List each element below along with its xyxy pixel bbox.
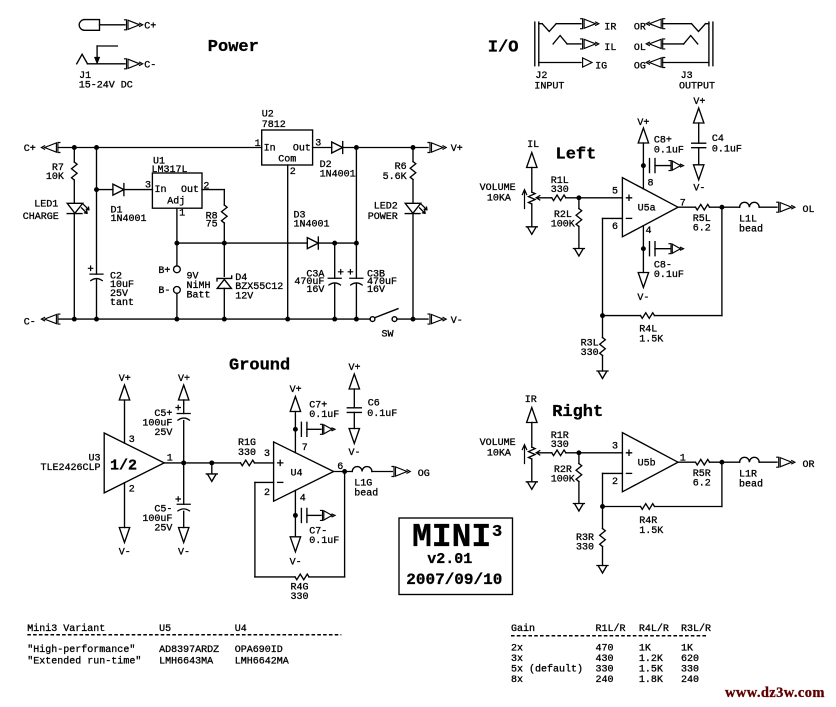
label U3 — [88, 454, 100, 465]
ground arrow (pot R) — [526, 482, 537, 490]
battery terminal B- — [174, 287, 181, 294]
wire U2 out — [313, 147, 332, 149]
plus C5- — [176, 497, 180, 501]
label U1 — [153, 156, 165, 167]
label 16V (C3B) — [367, 285, 385, 296]
wire pot wiper to R1L — [536, 197, 552, 199]
svg-text:100K: 100K — [551, 475, 575, 486]
switch SW — [370, 309, 398, 322]
wire J3 tip contact OR — [663, 24, 709, 32]
svg-text:Ground: Ground — [229, 357, 290, 376]
svg-text:B+: B+ — [158, 266, 170, 277]
svg-text:OG: OG — [418, 469, 430, 480]
svg-text:Left: Left — [556, 146, 597, 165]
regulator U1 box — [152, 173, 202, 208]
label R3L — [581, 339, 599, 350]
svg-text:CHARGE: CHARGE — [23, 212, 59, 223]
label C8- — [654, 261, 672, 272]
junction D2/C3B node — [354, 145, 359, 150]
wire LED1 to C- rail — [73, 214, 75, 320]
capacitor C7+ — [301, 422, 307, 436]
junction D3/C3A — [332, 241, 337, 246]
wire C2 to C- rail — [96, 279, 98, 319]
svg-text:v2.01: v2.01 — [427, 551, 472, 568]
pin 7 (U5a) — [680, 198, 686, 209]
label 1N4001 (D1) — [111, 214, 147, 225]
capacitor C2 — [90, 274, 103, 281]
label 10K — [46, 172, 64, 183]
connector tag OG — [392, 467, 430, 481]
svg-text:IR: IR — [525, 395, 537, 406]
svg-text:R3L/R: R3L/R — [681, 623, 711, 635]
pin 5 (U5a) — [612, 186, 618, 197]
watermark www.dz3w.com — [725, 685, 825, 701]
connector J1 barrel jack center pin — [79, 20, 99, 31]
pin 3 (U4) — [264, 449, 270, 460]
potentiometer VOLUME-L — [522, 190, 540, 227]
capacitor C3A — [328, 278, 341, 285]
diode D3 — [307, 237, 318, 249]
connector tag OG — [634, 58, 665, 73]
label LED1 — [34, 200, 58, 211]
title I/O — [488, 39, 519, 58]
capacitor C7- — [301, 508, 307, 522]
svg-text:"High-performance": "High-performance" — [27, 644, 135, 656]
wire U4 out — [334, 471, 353, 473]
junction adj/battery — [174, 241, 179, 246]
svg-text:16V: 16V — [367, 285, 385, 296]
connector tag OL — [777, 202, 815, 216]
label 1N4001 (D3) — [294, 220, 330, 231]
wire C- rail — [59, 318, 370, 320]
svg-text:6.2: 6.2 — [693, 479, 711, 490]
logo text date — [406, 571, 502, 589]
junction pin8/C8+ — [641, 163, 646, 168]
wire D4 to rail — [223, 288, 225, 319]
label L1G — [354, 479, 372, 490]
label C4 — [712, 134, 724, 145]
connector J3 jack body — [709, 22, 713, 66]
svg-text:6: 6 — [612, 222, 618, 233]
svg-text:5.6K: 5.6K — [383, 172, 407, 183]
label VOLUME (L) — [480, 183, 516, 194]
svg-text:100K: 100K — [551, 220, 575, 231]
svg-text:16V: 16V — [306, 285, 324, 296]
label D1 — [111, 205, 123, 216]
pin 4 (U5a) — [646, 226, 652, 237]
resistor R8 — [222, 205, 228, 223]
ground arrow (R2L) — [573, 249, 584, 257]
LED LED1 — [67, 203, 89, 213]
pin 2 (U4) — [264, 488, 270, 499]
power flag V+ (U3) — [119, 374, 131, 443]
capacitor C5- — [177, 463, 190, 528]
label CHARGE — [23, 212, 59, 223]
junction rail/C3B — [354, 317, 359, 322]
junction C+/C2 — [94, 145, 99, 150]
inductor L1G — [352, 467, 372, 472]
svg-text:VOLUME: VOLUME — [480, 438, 516, 449]
wire C4 bottom — [698, 148, 700, 165]
label L1R — [739, 470, 757, 481]
connector tag IG — [583, 58, 608, 73]
label Out (U1) — [181, 185, 199, 196]
svg-text:5x (default): 5x (default) — [511, 664, 583, 676]
label 9V — [187, 272, 199, 283]
label C8+ — [654, 136, 672, 147]
pin 2 (U5b) — [612, 477, 618, 488]
connector arrow (C8-) — [669, 244, 684, 254]
label R2R — [554, 465, 572, 476]
connector tag OR — [634, 19, 665, 34]
svg-text:25V: 25V — [154, 428, 172, 439]
wire C6 bottom — [353, 412, 355, 428]
junction rail/D4 — [222, 317, 227, 322]
resistor R5R — [696, 459, 710, 465]
svg-text:2: 2 — [290, 167, 296, 178]
diode D2 — [332, 142, 343, 154]
label J2 — [535, 71, 547, 82]
label 10KA (L) — [487, 194, 511, 205]
wire R5L to L1L — [710, 206, 740, 208]
svg-text:C-: C- — [24, 318, 36, 329]
label C5+ — [154, 409, 172, 420]
svg-text:1.5K: 1.5K — [639, 526, 663, 537]
svg-text:75: 75 — [206, 219, 218, 230]
svg-text:U4: U4 — [291, 469, 303, 480]
junction R3R/R4R — [600, 504, 605, 509]
wire J3 ring contact OL — [663, 36, 698, 44]
wire C2 to D1 — [97, 189, 113, 191]
svg-text:470: 470 — [596, 644, 614, 655]
label U2 — [262, 109, 274, 120]
svg-text:430: 430 — [596, 654, 614, 665]
wire U4 pin4 down — [294, 490, 296, 536]
regulator U2 box — [262, 130, 313, 165]
label R7 — [52, 163, 64, 174]
power flag V- (C6) — [349, 429, 361, 460]
wire R5R to L1R — [710, 461, 740, 463]
svg-text:U5: U5 — [159, 624, 171, 635]
wire C3A to rail — [334, 283, 336, 319]
label LM317L — [152, 165, 188, 176]
wire C7+ arrow lead — [307, 428, 321, 430]
svg-text:2007/09/10: 2007/09/10 — [406, 571, 502, 589]
label Adj (U1) — [167, 196, 185, 208]
svg-text:7: 7 — [302, 443, 308, 454]
battery terminal B+ — [174, 266, 181, 273]
svg-text:I/O: I/O — [488, 39, 519, 58]
svg-text:V-: V- — [119, 548, 131, 559]
label BZX55C12 — [235, 282, 283, 293]
table gain rule — [511, 635, 708, 637]
connector tag C+ (J1 out) — [125, 20, 157, 33]
wire L1G to OG tag — [372, 471, 392, 473]
svg-text:V+: V+ — [693, 97, 705, 108]
wire J2 sleeve IG — [539, 62, 581, 64]
svg-text:240: 240 — [681, 675, 699, 686]
label POWER — [368, 212, 398, 223]
inductor L1R — [740, 457, 760, 462]
svg-text:OL: OL — [634, 43, 646, 54]
label bead (L1R) — [739, 479, 763, 491]
label U4 — [291, 469, 303, 480]
connector tag IL (flag) — [527, 140, 540, 192]
svg-text:12V: 12V — [235, 292, 253, 303]
label R3R — [576, 533, 594, 544]
label R5L — [693, 214, 711, 225]
svg-text:7812: 7812 — [262, 120, 286, 131]
svg-text:IL: IL — [527, 140, 539, 151]
junction D1 tap — [94, 187, 99, 192]
label 6.2 (R5R) — [693, 479, 711, 490]
svg-text:V-: V- — [693, 184, 705, 195]
svg-text:3: 3 — [145, 181, 151, 192]
svg-text:OR: OR — [634, 23, 646, 34]
label R5R — [693, 469, 711, 480]
junction rail/C2 — [94, 317, 99, 322]
table variant row1 — [27, 644, 282, 656]
svg-text:OUTPUT: OUTPUT — [679, 82, 715, 93]
svg-text:Batt: Batt — [187, 291, 211, 302]
label C3A — [306, 269, 324, 280]
label J1 — [79, 71, 91, 82]
svg-text:25V: 25V — [154, 523, 172, 534]
wire U5a pin4 down — [642, 226, 644, 273]
label 7812 — [262, 120, 286, 131]
label INPUT — [534, 82, 564, 93]
svg-text:1.2K: 1.2K — [639, 654, 663, 665]
label 330 (R3L) — [581, 348, 599, 359]
junction R1L/R2L — [576, 195, 581, 200]
svg-text:LMH6642MA: LMH6642MA — [235, 657, 289, 668]
resistor R4G — [295, 574, 309, 580]
wire C+ rail — [59, 147, 262, 149]
op-amp U5a — [622, 178, 678, 237]
wire D1 to U1 — [124, 189, 152, 191]
svg-text:330: 330 — [576, 543, 594, 554]
wire U3 out to U4 — [164, 462, 273, 464]
wire R8 to adj net — [223, 223, 225, 243]
label 0.1uF (C8-) — [654, 270, 684, 281]
svg-text:1.8K: 1.8K — [639, 675, 663, 686]
junction out/feedback L — [719, 205, 724, 210]
label R2L — [554, 210, 572, 221]
label R1R — [551, 431, 569, 442]
svg-text:IR: IR — [604, 23, 616, 34]
label C7- — [309, 527, 327, 538]
svg-text:Right: Right — [552, 403, 603, 422]
label 100uF (C5+) — [142, 419, 172, 430]
svg-text:1/2: 1/2 — [110, 458, 137, 475]
wire U2 com down — [287, 165, 289, 319]
svg-text:3: 3 — [612, 441, 618, 452]
svg-text:INPUT: INPUT — [534, 82, 564, 93]
junction rail/LED1 — [72, 317, 77, 322]
svg-text:10KA: 10KA — [487, 449, 511, 460]
junction U3out/gnd — [209, 460, 214, 465]
capacitor C3B — [350, 278, 363, 285]
pin 6 (U4) — [337, 462, 343, 473]
label C7+ — [309, 401, 327, 412]
label 0.1uF (C6) — [367, 409, 397, 420]
svg-text:1.5K: 1.5K — [639, 335, 663, 346]
connector J2 jack body — [535, 22, 539, 66]
svg-text:OR: OR — [803, 460, 815, 471]
label bead (L1L) — [739, 224, 763, 236]
label TLE2426CLP — [40, 463, 100, 474]
junction R1R/R2R — [576, 450, 581, 455]
connector arrow (C8+) — [669, 161, 684, 171]
connector tag V- (rail) — [428, 314, 463, 327]
junction pin4/C8- — [641, 246, 646, 251]
svg-text:0.1uF: 0.1uF — [309, 410, 339, 421]
pin 3 (U1) — [145, 181, 151, 192]
pin 2 (U1) — [203, 181, 209, 192]
svg-text:330: 330 — [238, 448, 256, 459]
junction out/feedback R — [719, 460, 724, 465]
pin 1 (U3) — [167, 454, 173, 465]
resistor R6 — [410, 148, 416, 204]
pin 3 (U5b) — [612, 441, 618, 452]
label D3 — [294, 211, 306, 222]
svg-text:Adj: Adj — [167, 196, 185, 208]
svg-text:J3: J3 — [681, 71, 693, 82]
label C5- — [154, 505, 172, 516]
svg-text:LED1: LED1 — [34, 200, 58, 211]
svg-text:1: 1 — [255, 139, 261, 150]
wire C+ to C2 — [96, 148, 98, 275]
label 15-24V DC — [79, 81, 133, 92]
connector tag V+ (rail) — [428, 143, 463, 156]
label 470uF (C3B) — [367, 277, 397, 288]
zener diode D4 — [217, 276, 232, 289]
power flag V- (C4) — [693, 165, 705, 195]
label 0.1uF (C7-) — [309, 536, 339, 547]
resistor R5L — [696, 204, 710, 210]
wire D3 to C3B — [318, 242, 356, 244]
power flag V+ (U5a pin8) — [637, 118, 649, 189]
wire D2 node to C3B — [355, 148, 357, 279]
wire L1L to OL tag — [759, 206, 777, 208]
label U5a — [638, 204, 656, 215]
svg-text:1.5K: 1.5K — [639, 665, 663, 676]
svg-text:U5b: U5b — [638, 458, 656, 470]
table variant header — [27, 623, 246, 635]
wire U1 adj down — [176, 208, 178, 243]
connector tag IR — [581, 19, 617, 34]
wire R1R to U5b pin3 — [566, 452, 623, 454]
label 330 (R4G) — [291, 592, 309, 603]
power flag V- (U3) — [119, 483, 131, 559]
ground arrow (R3L) — [597, 371, 608, 379]
svg-text:V+: V+ — [349, 363, 361, 374]
label 16V (C3A) — [306, 285, 324, 296]
label R1L — [551, 176, 569, 187]
svg-text:TLE2426CLP: TLE2426CLP — [40, 463, 100, 474]
svg-text:330: 330 — [551, 440, 569, 451]
wire C3B to rail — [355, 283, 357, 319]
junction rail/battery — [174, 317, 179, 322]
svg-text:U5a: U5a — [638, 204, 656, 215]
svg-text:OG: OG — [634, 62, 646, 73]
resistor R2L — [576, 198, 582, 249]
svg-text:0.1uF: 0.1uF — [309, 536, 339, 547]
svg-text:C-: C- — [144, 61, 156, 72]
label R4L — [639, 325, 657, 336]
label OUTPUT — [679, 82, 715, 93]
wire SW to V- tag — [397, 318, 428, 320]
svg-text:0.1uF: 0.1uF — [712, 145, 742, 156]
label Out (U2) — [293, 144, 311, 155]
svg-text:V+: V+ — [290, 385, 302, 396]
svg-text:0.1uF: 0.1uF — [654, 270, 684, 281]
junction D3/C3B — [354, 241, 359, 246]
wire C8- to star — [655, 248, 671, 250]
junction rail/C3A — [332, 317, 337, 322]
junction C+/R7 — [72, 145, 77, 150]
label 5.6K — [383, 172, 407, 183]
plus C5+ — [176, 405, 180, 409]
label LED2 — [374, 202, 398, 213]
svg-text:2: 2 — [612, 477, 618, 488]
svg-text:Power: Power — [208, 38, 259, 57]
svg-text:B-: B- — [158, 286, 170, 297]
svg-text:bead: bead — [739, 224, 763, 236]
label D2 — [320, 160, 332, 171]
pin 2 (U3) — [129, 485, 135, 496]
wire J3 sleeve OG — [663, 62, 709, 64]
label 100uF (C5-) — [142, 514, 172, 525]
label B+ — [158, 266, 170, 277]
svg-text:Out: Out — [293, 144, 311, 155]
wire C7- arrow lead — [307, 514, 321, 516]
svg-text:C+: C+ — [144, 21, 156, 32]
label In (U2) — [264, 144, 276, 155]
table gain row2 — [511, 654, 699, 665]
table variant rule — [27, 634, 341, 636]
resistor R4R — [641, 504, 655, 510]
svg-text:3: 3 — [129, 435, 135, 446]
label Batt — [187, 291, 211, 302]
inductor L1L — [740, 202, 760, 207]
label 6.2 (R5L) — [693, 224, 711, 235]
svg-text:240: 240 — [596, 675, 614, 686]
svg-text:3: 3 — [492, 523, 502, 542]
wire pot wiper to R1R — [536, 452, 552, 454]
ground arrow (star) — [206, 463, 217, 482]
label VOLUME (R) — [480, 438, 516, 449]
label R6 — [395, 162, 407, 173]
resistor R3L — [600, 316, 606, 371]
ground arrow (pot L) — [526, 227, 537, 235]
label 25V (C5-) — [154, 523, 172, 534]
resistor R1G — [241, 460, 255, 466]
table gain row1 — [511, 644, 693, 655]
label C6 — [368, 399, 380, 410]
svg-text:V+: V+ — [178, 374, 190, 385]
svg-text:J2: J2 — [535, 71, 547, 82]
power flag V- (U5a pin4) — [637, 273, 649, 305]
svg-text:0.1uF: 0.1uF — [654, 146, 684, 157]
junction adj/R8 — [222, 241, 227, 246]
svg-text:U2: U2 — [262, 109, 274, 120]
capacitor C5+ — [177, 404, 190, 463]
power flag V+ (C5+) — [178, 374, 190, 404]
svg-text:Com: Com — [278, 155, 296, 166]
capacitor C6 — [347, 408, 361, 413]
title Left — [556, 146, 597, 165]
